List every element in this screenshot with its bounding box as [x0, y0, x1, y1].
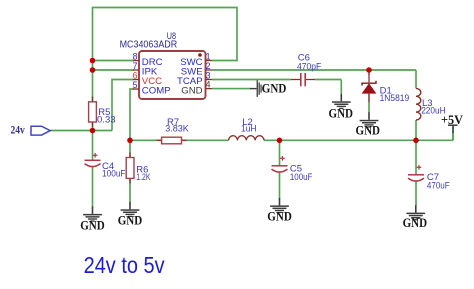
svg-text:470uF: 470uF	[427, 181, 450, 192]
svg-text:GND: GND	[118, 213, 143, 227]
svg-text:GND: GND	[181, 85, 202, 96]
svg-text:100uF: 100uF	[102, 169, 126, 180]
svg-text:1.2K: 1.2K	[136, 172, 151, 183]
svg-text:1uH: 1uH	[241, 123, 257, 134]
svg-text:GND: GND	[267, 209, 292, 223]
svg-text:GND: GND	[356, 124, 381, 138]
svg-text:4: 4	[206, 79, 211, 89]
svg-text:7: 7	[133, 61, 138, 71]
svg-text:3.83K: 3.83K	[165, 124, 189, 135]
svg-text:MC34063ADR: MC34063ADR	[120, 40, 178, 51]
svg-text:470pF: 470pF	[297, 61, 321, 72]
svg-text:6: 6	[133, 70, 138, 80]
svg-text:8: 8	[133, 51, 138, 61]
svg-text:1N5819: 1N5819	[380, 93, 410, 104]
svg-text:COMP: COMP	[142, 85, 171, 96]
svg-text:5: 5	[133, 80, 138, 90]
svg-text:0.33: 0.33	[97, 115, 116, 126]
svg-text:2: 2	[206, 61, 211, 71]
svg-text:24v to 5v: 24v to 5v	[84, 252, 165, 278]
svg-text:GND: GND	[262, 82, 287, 96]
svg-text:24v: 24v	[11, 123, 25, 137]
svg-text:GND: GND	[80, 219, 105, 233]
svg-text:100uF: 100uF	[290, 172, 313, 183]
svg-text:GND: GND	[329, 107, 354, 121]
svg-text:220uH: 220uH	[421, 106, 446, 117]
svg-text:1: 1	[206, 51, 211, 61]
svg-text:GND: GND	[403, 216, 428, 230]
